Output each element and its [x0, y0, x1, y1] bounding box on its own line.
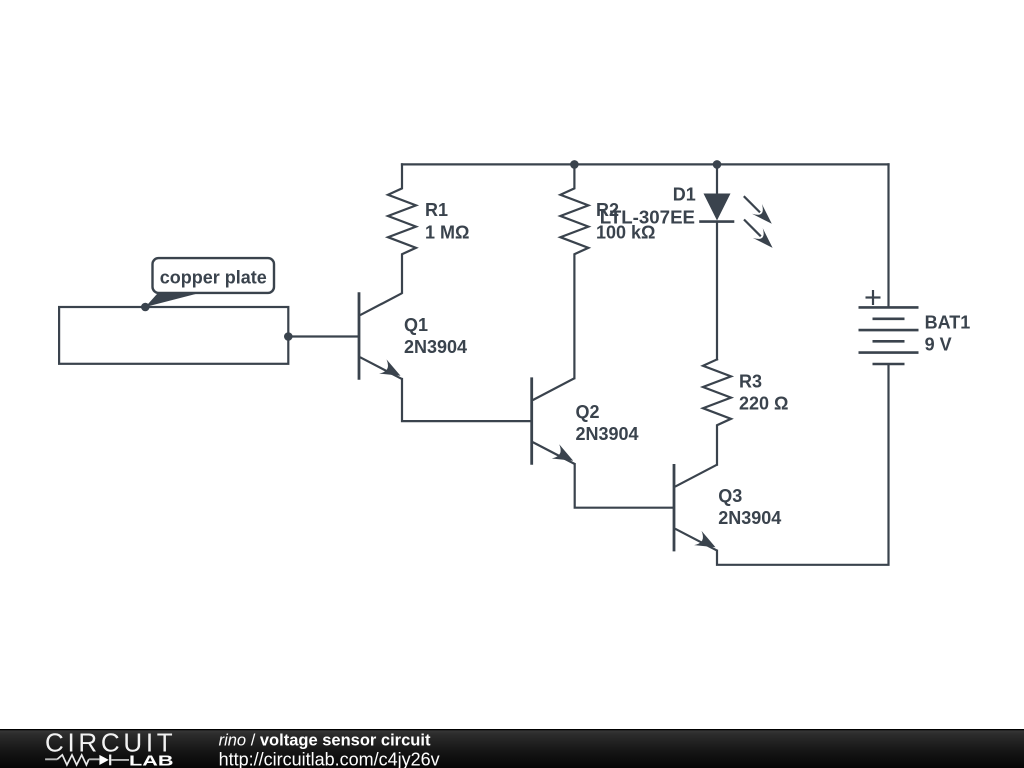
wire battery positive lead	[887, 164, 889, 307]
callout pointer	[145, 293, 200, 307]
svg-text:1 MΩ: 1 MΩ	[425, 222, 469, 242]
svg-text:copper plate: copper plate	[160, 267, 267, 287]
logo resistor-diode glyph	[45, 755, 129, 766]
led D1 cathode bar	[701, 220, 734, 223]
wire Q1 base	[288, 335, 358, 337]
node copper plate tap	[141, 303, 150, 312]
svg-text:Q3: Q3	[718, 486, 742, 506]
svg-text:220 Ω: 220 Ω	[739, 394, 788, 414]
svg-text:2N3904: 2N3904	[576, 424, 639, 444]
wire Q1 emitter to Q2 base	[402, 379, 531, 421]
led D1 anode lead	[716, 164, 718, 193]
battery BAT1	[859, 307, 919, 364]
svg-text:D1: D1	[673, 184, 696, 204]
svg-text:2N3904: 2N3904	[404, 337, 467, 357]
footer bar	[0, 729, 1024, 768]
transistor Q3	[674, 464, 717, 551]
led D1 triangle	[704, 194, 731, 221]
transistor Q2	[532, 377, 575, 464]
svg-text:R3: R3	[739, 372, 762, 392]
wire Q3 emitter to battery negative	[717, 364, 889, 565]
wire Q2 emitter to Q3 base	[575, 464, 673, 508]
node R2 top	[570, 160, 579, 169]
resistor R2	[560, 164, 588, 378]
copper plate	[59, 307, 288, 364]
svg-text:9 V: 9 V	[925, 335, 952, 355]
node Q1 base	[284, 332, 293, 341]
labels	[404, 184, 970, 528]
callout copper plate box	[153, 258, 275, 293]
led D1 light arrows	[744, 196, 761, 236]
svg-text:LAB: LAB	[129, 752, 174, 768]
wire D1 cathode to R3	[716, 223, 718, 360]
svg-text:BAT1: BAT1	[925, 313, 971, 333]
svg-text:Q2: Q2	[576, 402, 600, 422]
svg-text:LTL-307EE: LTL-307EE	[600, 207, 695, 227]
svg-text:rino / voltage sensor circuit: rino / voltage sensor circuit	[219, 732, 431, 750]
resistor R1	[388, 164, 416, 292]
svg-text:http://circuitlab.com/c4jy26v: http://circuitlab.com/c4jy26v	[219, 749, 440, 768]
wire top rail	[402, 163, 889, 165]
svg-text:2N3904: 2N3904	[718, 508, 781, 528]
node D1 top	[713, 160, 722, 169]
svg-text:R1: R1	[425, 200, 448, 220]
svg-text:Q1: Q1	[404, 315, 428, 335]
transistor Q1	[359, 292, 402, 379]
battery plus sign	[866, 290, 881, 305]
resistor R3	[703, 359, 731, 464]
